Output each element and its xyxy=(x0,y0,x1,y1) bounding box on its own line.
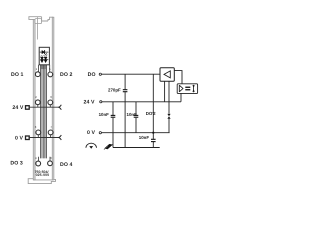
terminal 4 stem xyxy=(38,157,40,161)
terminal 7 circle (0V) xyxy=(48,130,53,135)
24V field wire square xyxy=(26,106,30,110)
comb of wires exiting LED box xyxy=(41,65,43,69)
bottom foot profile xyxy=(28,179,55,184)
monitor chevron xyxy=(179,85,183,92)
24V jumper contact fork xyxy=(58,105,61,110)
terminal 2 stem xyxy=(37,105,39,108)
svg-text:270pF: 270pF xyxy=(108,87,121,92)
wire DO rail xyxy=(101,73,160,75)
terminal 4 circle (DO3) xyxy=(36,161,41,166)
LED D1 (top, horizontal diode with arrows) xyxy=(40,50,49,55)
terminal 5 stem xyxy=(49,65,51,72)
right wall strip xyxy=(52,17,54,180)
monitor box U2 xyxy=(177,84,197,94)
LED window box xyxy=(39,47,49,65)
driver box U1 xyxy=(160,68,174,82)
svg-text:DO: DO xyxy=(88,72,96,78)
module housing outline (side profile, light gray) xyxy=(28,17,55,184)
terminal 5 circle (DO2) xyxy=(48,72,53,77)
node DO xyxy=(99,73,101,75)
DIN cavity rectangle at top xyxy=(35,19,42,24)
svg-text:025-000: 025-000 xyxy=(36,173,50,177)
blade connect wire xyxy=(112,144,113,146)
24V wire across module xyxy=(29,106,59,108)
svg-text:DO 4: DO 4 xyxy=(60,162,73,168)
terminal 6 stem xyxy=(49,105,51,107)
wire 24V rail xyxy=(102,101,181,103)
0V wire across module xyxy=(29,137,59,139)
terminal 2 circle (24V) xyxy=(35,100,40,105)
capacitor C2 10nF plates xyxy=(111,114,116,116)
claw at top right xyxy=(48,17,53,21)
svg-text:24 V: 24 V xyxy=(12,105,24,111)
monitor equal bars xyxy=(185,87,190,88)
capacitor C4 10nF plates xyxy=(151,138,156,140)
power jumper blade icon xyxy=(105,144,113,149)
0V field wire square xyxy=(26,136,30,140)
wire DO to 0V vertical xyxy=(152,74,154,133)
wire driver to monitor box xyxy=(174,71,182,84)
release tab line xyxy=(37,17,39,39)
wire 0V to FE at 125.1 xyxy=(124,133,126,148)
svg-text:10nF: 10nF xyxy=(127,112,138,117)
capacitor C3 10nF branch wire (24V to 0V) xyxy=(135,102,137,115)
svg-text:DO 2: DO 2 xyxy=(60,72,73,78)
bottom edge of body xyxy=(33,179,53,181)
svg-text:10nF: 10nF xyxy=(139,135,150,140)
terminal 8 circle (DO4) xyxy=(48,161,53,166)
svg-text:DO 3: DO 3 xyxy=(10,161,23,167)
LED bar crossing line xyxy=(40,59,48,61)
LED D2 (bottom left, vertical diode) xyxy=(41,55,44,62)
svg-text:0 V: 0 V xyxy=(87,130,96,136)
top plateau and left foot xyxy=(29,17,42,20)
driver triangle xyxy=(164,71,170,78)
svg-text:DO 1: DO 1 xyxy=(11,72,24,78)
terminal 3 stem xyxy=(37,135,39,138)
module part number text xyxy=(35,170,49,174)
svg-text:24 V: 24 V xyxy=(84,99,96,105)
zener diode VDR symbol xyxy=(167,114,170,116)
monitor diode column xyxy=(193,85,195,92)
terminal 7 stem xyxy=(50,135,52,138)
internal wire bundle xyxy=(40,65,47,159)
wire FE rail xyxy=(113,147,160,149)
junction dot at 0V xyxy=(152,132,154,134)
capacitor C4 10nF branch wire (0V to FE) xyxy=(152,133,154,139)
wire 0V rail xyxy=(101,132,169,134)
left wall strip xyxy=(33,19,35,180)
terminal 3 circle (0V) xyxy=(36,130,41,135)
earth arc icon xyxy=(86,143,97,148)
monitor box pin to 24V rail xyxy=(180,93,182,101)
terminal 1 circle (DO1) xyxy=(35,72,40,77)
0V jumper contact fork xyxy=(58,135,61,140)
capacitor C3 10nF plates xyxy=(134,114,139,116)
node 24V xyxy=(100,101,102,103)
driver pin to 24V xyxy=(164,81,166,102)
svg-text:0 V: 0 V xyxy=(15,136,24,142)
step down to DIN slot xyxy=(42,17,48,21)
capacitor C1 270pF plates xyxy=(123,89,128,91)
node 0V xyxy=(99,132,101,134)
capacitor C2 10nF branch wire (24V to FE) xyxy=(112,102,114,115)
terminal 1 stem xyxy=(38,65,40,72)
svg-text:10nF: 10nF xyxy=(99,112,110,117)
capacitor C1 270pF branch wire xyxy=(124,74,126,89)
terminal 6 circle (24V) xyxy=(48,100,53,105)
svg-text:DO’2: DO’2 xyxy=(146,111,156,116)
zener diode branch wire xyxy=(168,81,170,114)
terminal 8 stem xyxy=(49,157,51,161)
LED D3 (bottom right, vertical diode) xyxy=(44,55,47,62)
